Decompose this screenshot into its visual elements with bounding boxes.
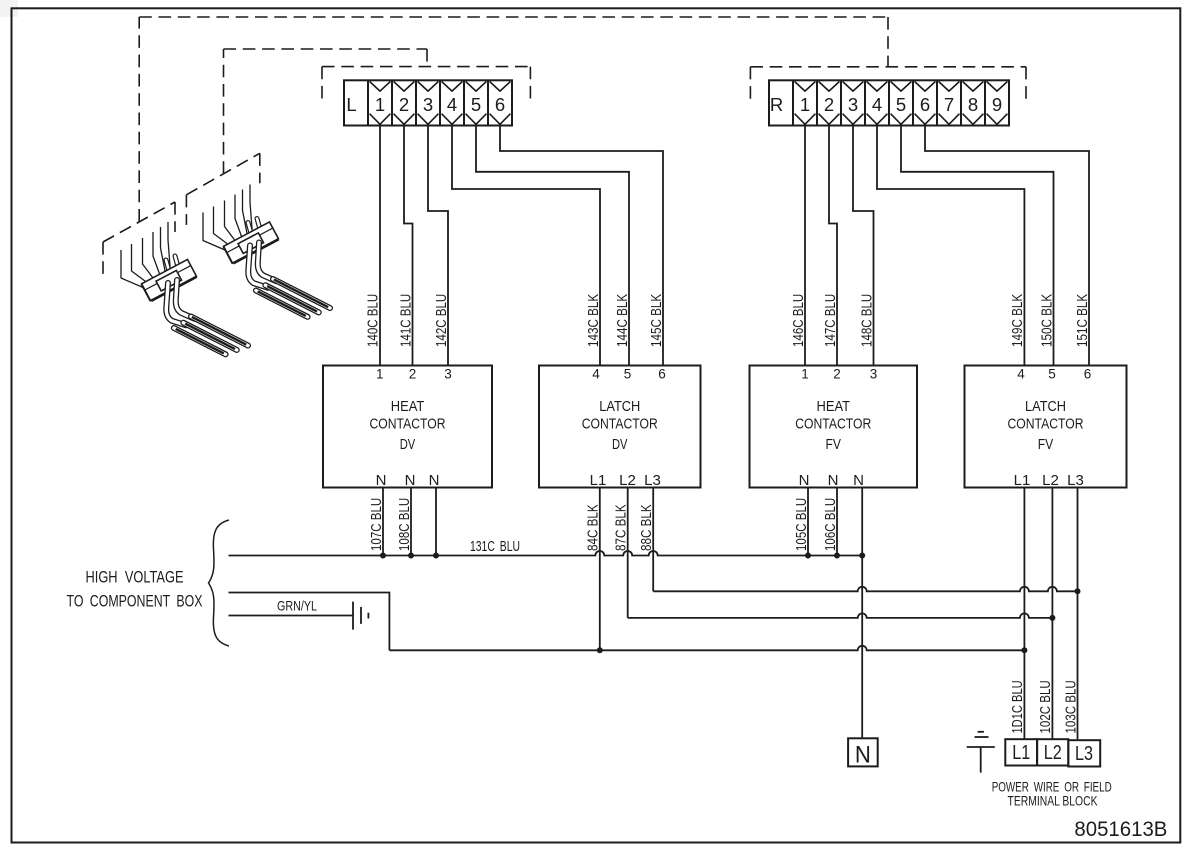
svg-text:6: 6 [1084,367,1092,382]
svg-text:3: 3 [444,367,452,382]
svg-text:88C BLK: 88C BLK [638,504,655,551]
svg-text:141C BLU: 141C BLU [397,294,414,347]
svg-text:147C BLU: 147C BLU [822,294,839,347]
svg-text:CONTACTOR: CONTACTOR [370,416,446,433]
svg-text:L1: L1 [1014,472,1031,489]
svg-text:1: 1 [375,94,385,115]
svg-text:106C BLU: 106C BLU [822,498,839,551]
svg-text:148C BLU: 148C BLU [858,294,875,347]
svg-text:L3: L3 [1075,743,1093,765]
svg-text:N: N [799,472,810,489]
svg-text:107C BLU: 107C BLU [368,498,385,551]
svg-text:4: 4 [447,94,457,115]
svg-text:L2: L2 [1042,472,1059,489]
svg-text:131C BLU: 131C BLU [470,538,520,555]
svg-text:3: 3 [423,94,433,115]
svg-text:8051613B: 8051613B [1074,818,1167,841]
svg-text:102C BLU: 102C BLU [1037,680,1054,733]
svg-text:2: 2 [833,367,841,382]
svg-text:TERMINAL BLOCK: TERMINAL BLOCK [1008,793,1098,809]
svg-text:LATCH: LATCH [599,398,640,415]
svg-text:8: 8 [968,94,978,115]
svg-text:142C BLU: 142C BLU [433,294,450,347]
svg-text:FV: FV [826,436,842,453]
svg-text:N: N [376,472,387,489]
svg-text:L2: L2 [1044,742,1062,764]
svg-text:151C BLK: 151C BLK [1074,294,1091,347]
svg-text:N: N [429,472,440,489]
svg-text:6: 6 [658,367,666,382]
svg-text:DV: DV [612,436,628,453]
svg-text:3: 3 [848,94,858,115]
svg-text:GRN/YL: GRN/YL [277,598,317,614]
svg-text:4: 4 [1017,367,1025,382]
svg-text:L1: L1 [1012,742,1030,764]
svg-text:HIGH VOLTAGE: HIGH VOLTAGE [86,568,184,587]
svg-text:144C BLK: 144C BLK [614,294,631,347]
svg-text:150C BLK: 150C BLK [1038,294,1055,347]
svg-text:CONTACTOR: CONTACTOR [1008,416,1084,433]
svg-text:FV: FV [1038,436,1054,453]
svg-text:5: 5 [471,94,481,115]
svg-text:1: 1 [376,367,384,382]
svg-text:N: N [853,472,864,489]
svg-text:L2: L2 [619,472,636,489]
svg-text:6: 6 [920,94,930,115]
svg-text:87C BLK: 87C BLK [613,504,630,551]
svg-text:2: 2 [409,367,417,382]
svg-text:4: 4 [592,367,600,382]
svg-text:1D1C BLU: 1D1C BLU [1009,680,1026,733]
svg-text:L3: L3 [644,472,661,489]
svg-text:L1: L1 [590,472,607,489]
svg-text:TO COMPONENT BOX: TO COMPONENT BOX [67,592,203,611]
svg-text:N: N [405,472,416,489]
svg-text:CONTACTOR: CONTACTOR [582,416,658,433]
svg-text:6: 6 [495,94,505,115]
svg-text:N: N [828,472,839,489]
svg-text:9: 9 [992,94,1002,115]
svg-text:CONTACTOR: CONTACTOR [795,416,871,433]
svg-text:84C BLK: 84C BLK [585,504,602,551]
svg-text:2: 2 [399,94,409,115]
svg-text:L3: L3 [1067,472,1084,489]
svg-text:103C BLU: 103C BLU [1062,680,1079,733]
svg-text:108C BLU: 108C BLU [396,498,413,551]
svg-text:7: 7 [944,94,954,115]
svg-text:4: 4 [872,94,882,115]
svg-text:HEAT: HEAT [817,398,851,415]
svg-text:140C BLU: 140C BLU [365,294,382,347]
svg-text:5: 5 [624,367,632,382]
svg-text:HEAT: HEAT [391,398,425,415]
svg-text:149C BLK: 149C BLK [1009,294,1026,347]
svg-text:1: 1 [801,367,809,382]
svg-text:5: 5 [1048,367,1056,382]
svg-text:145C BLK: 145C BLK [648,294,665,347]
svg-text:5: 5 [896,94,906,115]
svg-text:143C BLK: 143C BLK [585,294,602,347]
svg-text:L: L [346,94,356,115]
svg-text:2: 2 [824,94,834,115]
svg-text:1: 1 [800,94,810,115]
svg-text:146C BLU: 146C BLU [790,294,807,347]
svg-text:DV: DV [400,436,416,453]
svg-text:R: R [770,94,783,115]
svg-text:LATCH: LATCH [1025,398,1066,415]
svg-text:N: N [855,742,871,769]
svg-text:3: 3 [870,367,878,382]
svg-text:105C BLU: 105C BLU [793,498,810,551]
